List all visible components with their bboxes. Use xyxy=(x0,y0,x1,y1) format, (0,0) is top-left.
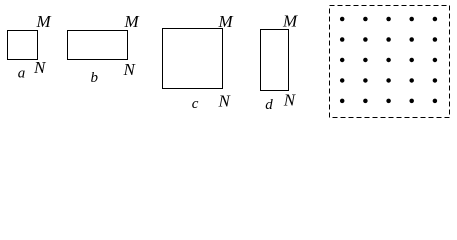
svg-text:N: N xyxy=(283,91,297,110)
svg-text:d: d xyxy=(265,97,273,113)
svg-text:N: N xyxy=(123,60,137,79)
svg-text:a: a xyxy=(18,66,26,82)
svg-text:M: M xyxy=(124,12,140,31)
svg-text:b: b xyxy=(91,70,99,86)
svg-text:N: N xyxy=(218,92,232,111)
svg-text:M: M xyxy=(36,12,52,31)
svg-text:c: c xyxy=(192,96,199,112)
svg-text:M: M xyxy=(282,12,298,31)
svg-text:N: N xyxy=(33,58,47,77)
svg-text:M: M xyxy=(218,12,234,31)
